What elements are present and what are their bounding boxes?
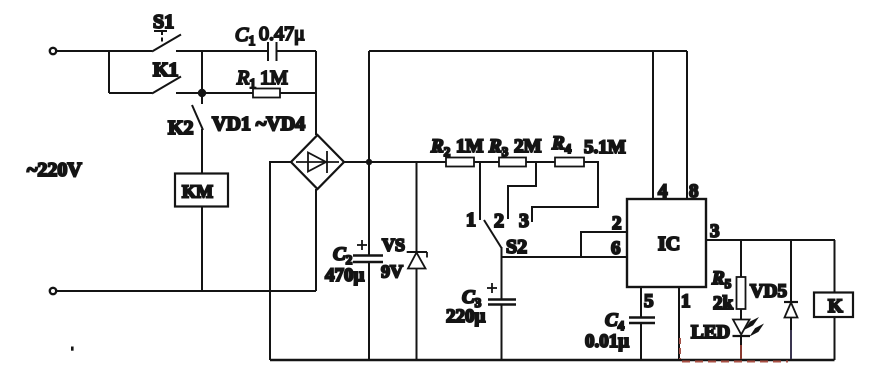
wire R3 to R4 bbox=[526, 161, 555, 163]
wire plus node up to top rail bbox=[368, 51, 370, 162]
wire S2 pole down to C3 bbox=[501, 247, 503, 299]
svg-text:VD5: VD5 bbox=[750, 281, 787, 302]
svg-text:K1: K1 bbox=[153, 59, 179, 81]
wire S2 pole to IC pin 6 bbox=[502, 256, 628, 258]
wire pin 1 bbox=[678, 287, 680, 360]
svg-text:6: 6 bbox=[611, 238, 621, 259]
svg-text:2: 2 bbox=[612, 213, 622, 234]
zener diode VS bbox=[381, 162, 427, 360]
wire contact 2 drop from R3/R4 junction bbox=[508, 162, 536, 219]
wire plus rail to R2 bbox=[369, 161, 446, 163]
svg-text:K2: K2 bbox=[168, 117, 194, 139]
svg-text:1: 1 bbox=[681, 291, 691, 312]
svg-text:0.47μ: 0.47μ bbox=[259, 23, 305, 45]
wire pin 8 bbox=[686, 51, 688, 199]
svg-text:2: 2 bbox=[494, 210, 504, 232]
wire bottom AC line bbox=[57, 290, 316, 292]
capacitor C4 bbox=[585, 310, 655, 360]
svg-text:220μ: 220μ bbox=[446, 306, 486, 327]
terminal top-left bbox=[50, 48, 56, 54]
capacitor C2 bbox=[325, 162, 383, 360]
node DC plus junction bbox=[366, 159, 372, 165]
wire parallel branch drop bbox=[108, 51, 110, 93]
wire top terminal to S1 bbox=[57, 50, 152, 52]
svg-text:2M: 2M bbox=[514, 136, 542, 157]
relay K bbox=[814, 240, 853, 360]
resistor R5 bbox=[711, 240, 746, 320]
stray speck bbox=[71, 347, 74, 351]
wire pin 3 rail bbox=[706, 239, 835, 241]
switch S1 bbox=[152, 11, 268, 52]
svg-text:1: 1 bbox=[466, 209, 476, 231]
svg-text:S1: S1 bbox=[153, 11, 174, 33]
svg-text:R5: R5 bbox=[711, 268, 732, 291]
LED indicator bbox=[691, 317, 764, 360]
svg-text:VS: VS bbox=[382, 235, 405, 255]
svg-text:R2: R2 bbox=[430, 136, 450, 159]
resistor R4 bbox=[551, 133, 626, 167]
svg-text:C1: C1 bbox=[235, 24, 255, 49]
svg-text:~220V: ~220V bbox=[27, 159, 82, 181]
svg-text:IC: IC bbox=[658, 233, 680, 255]
switch K2 bbox=[168, 93, 203, 173]
resistor R2 bbox=[430, 136, 484, 167]
capacitor C3 bbox=[446, 283, 516, 360]
terminal bottom-left bbox=[50, 288, 56, 294]
wire contact 1 drop bbox=[479, 162, 481, 220]
wire contact 3 drop from R4 output bbox=[532, 162, 598, 222]
svg-text:3: 3 bbox=[519, 210, 529, 232]
wire bridge right vertex to plus node bbox=[344, 161, 369, 163]
svg-text:LED: LED bbox=[691, 322, 730, 343]
diode VD5 bbox=[750, 240, 798, 360]
svg-text:3: 3 bbox=[710, 221, 720, 242]
wire C1/R1 node down to bridge bbox=[315, 51, 317, 135]
wire bridge left vertex to DC minus rail bbox=[270, 162, 291, 360]
svg-text:5: 5 bbox=[644, 291, 654, 312]
wire bottom AC to bridge bbox=[315, 189, 317, 291]
bridge rectifier VD1~VD4 bbox=[212, 113, 344, 189]
svg-text:9V: 9V bbox=[381, 262, 403, 282]
node junction S1/K1 bbox=[198, 89, 206, 97]
svg-text:R3: R3 bbox=[488, 136, 509, 159]
svg-text:KM: KM bbox=[182, 182, 213, 202]
wire pin 4 bbox=[652, 51, 654, 199]
svg-text:R1: R1 bbox=[236, 67, 256, 92]
svg-text:2k: 2k bbox=[713, 293, 734, 314]
watermark red dashes bbox=[680, 330, 791, 362]
svg-text:1M: 1M bbox=[260, 67, 288, 89]
resistor R1 bbox=[236, 67, 316, 98]
wire pin2/pin6 link bbox=[581, 232, 627, 257]
relay coil KM bbox=[175, 174, 228, 207]
capacitor C1 bbox=[235, 23, 316, 61]
svg-text:K: K bbox=[828, 296, 843, 317]
svg-text:C2: C2 bbox=[333, 244, 352, 267]
resistor R3 bbox=[488, 136, 542, 167]
switch S2 blade bbox=[484, 220, 502, 248]
IC U1 timer box bbox=[627, 199, 706, 287]
wire pin 5 bbox=[640, 287, 642, 317]
svg-text:R4: R4 bbox=[551, 133, 572, 156]
svg-text:5.1M: 5.1M bbox=[584, 137, 626, 158]
wire bottom DC rail bbox=[270, 359, 835, 361]
svg-text:VD1 ~VD4: VD1 ~VD4 bbox=[212, 113, 305, 135]
svg-text:C4: C4 bbox=[605, 310, 625, 333]
wire KM to bottom AC line bbox=[201, 207, 203, 292]
wire R2 to R3 bbox=[474, 161, 499, 163]
svg-text:1M: 1M bbox=[456, 136, 484, 157]
wire top rail to IC pins 4/8 bbox=[369, 50, 687, 52]
wire K1 left bbox=[109, 92, 152, 94]
svg-text:0.01μ: 0.01μ bbox=[585, 331, 629, 352]
switch K1 bbox=[152, 59, 253, 94]
svg-text:S2: S2 bbox=[506, 236, 527, 258]
svg-text:470μ: 470μ bbox=[325, 265, 365, 286]
wire S1 output down to K1 output bbox=[201, 51, 203, 93]
